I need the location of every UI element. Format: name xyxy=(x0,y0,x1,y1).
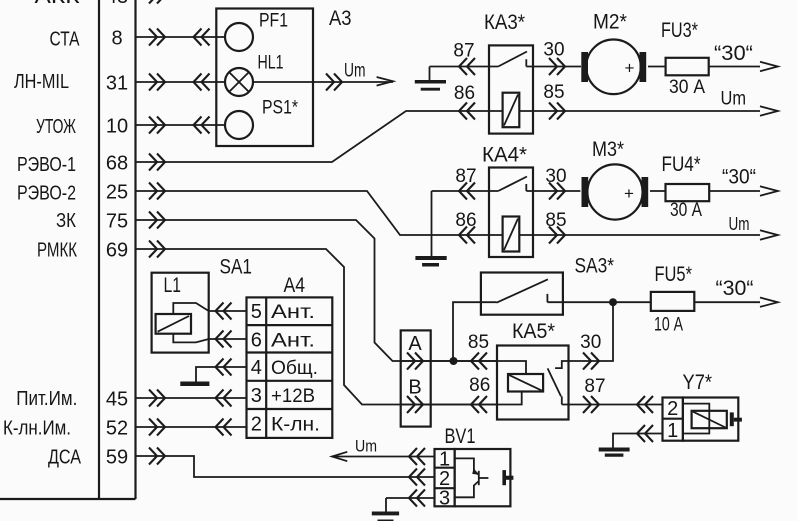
svg-text:“30“: “30“ xyxy=(714,42,753,65)
svg-text:L1: L1 xyxy=(164,274,182,297)
svg-text:КА5*: КА5* xyxy=(512,320,555,343)
svg-text:РЭВО-2: РЭВО-2 xyxy=(17,183,76,205)
svg-text:87: 87 xyxy=(455,166,476,187)
svg-text:30: 30 xyxy=(545,166,566,187)
svg-text:BV1: BV1 xyxy=(445,425,476,448)
svg-text:Um: Um xyxy=(729,214,750,234)
svg-text:А: А xyxy=(408,333,422,355)
svg-text:М3*: М3* xyxy=(592,138,624,161)
svg-text:+12В: +12В xyxy=(271,386,315,407)
svg-text:4: 4 xyxy=(251,357,262,379)
svg-text:30: 30 xyxy=(543,40,564,61)
svg-text:Y7*: Y7* xyxy=(683,371,713,394)
svg-text:“30“: “30“ xyxy=(716,277,754,300)
svg-text:52: 52 xyxy=(106,417,128,439)
svg-text:59: 59 xyxy=(106,446,128,468)
svg-text:Ант.: Ант. xyxy=(271,302,315,323)
svg-text:2: 2 xyxy=(667,398,678,420)
svg-text:КА3*: КА3* xyxy=(484,11,525,34)
svg-text:69: 69 xyxy=(106,239,128,261)
svg-text:ЗК: ЗК xyxy=(56,210,76,232)
svg-text:86: 86 xyxy=(469,375,490,396)
svg-text:КА4*: КА4* xyxy=(482,144,527,167)
svg-text:РЭВО-1: РЭВО-1 xyxy=(17,154,76,176)
svg-text:Um: Um xyxy=(344,61,366,82)
svg-text:2: 2 xyxy=(251,414,262,436)
svg-text:Um: Um xyxy=(721,89,747,110)
svg-text:FU5*: FU5* xyxy=(655,263,693,286)
svg-text:+: + xyxy=(625,58,635,77)
svg-text:85: 85 xyxy=(468,332,489,353)
svg-text:А3: А3 xyxy=(329,7,352,30)
svg-text:РМКК: РМКК xyxy=(37,240,77,262)
svg-text:Um: Um xyxy=(355,437,377,456)
svg-text:10 А: 10 А xyxy=(654,315,683,336)
svg-text:В: В xyxy=(408,377,421,399)
svg-text:45: 45 xyxy=(106,388,128,410)
svg-text:31: 31 xyxy=(106,72,128,94)
svg-text:FU3*: FU3* xyxy=(661,19,698,42)
svg-text:PF1: PF1 xyxy=(259,11,288,32)
svg-text:К-лн.Им.: К-лн.Им. xyxy=(3,418,71,440)
svg-text:6: 6 xyxy=(251,329,262,351)
svg-text:SA1: SA1 xyxy=(220,256,253,279)
svg-text:68: 68 xyxy=(106,153,128,175)
svg-text:ДСА: ДСА xyxy=(48,446,82,468)
svg-text:86: 86 xyxy=(454,83,475,104)
svg-text:Пит.Им.: Пит.Им. xyxy=(16,388,77,410)
svg-text:PS1*: PS1* xyxy=(262,98,298,119)
svg-text:3: 3 xyxy=(439,487,450,509)
svg-text:87: 87 xyxy=(453,41,474,62)
svg-text:FU4*: FU4* xyxy=(662,153,701,176)
svg-text:8: 8 xyxy=(111,27,122,49)
svg-text:“30“: “30“ xyxy=(722,166,756,189)
svg-text:1: 1 xyxy=(667,420,678,442)
svg-text:SA3*: SA3* xyxy=(575,255,615,278)
svg-text:75: 75 xyxy=(106,210,128,232)
svg-text:СТА: СТА xyxy=(50,28,81,50)
svg-text:25: 25 xyxy=(106,181,128,203)
svg-text:Ант.: Ант. xyxy=(271,330,315,351)
svg-text:5: 5 xyxy=(251,301,262,323)
svg-text:ЛН-MIL: ЛН-MIL xyxy=(14,71,69,93)
svg-text:30: 30 xyxy=(580,332,601,353)
svg-text:М2*: М2* xyxy=(593,11,627,34)
svg-text:А4: А4 xyxy=(284,274,306,297)
svg-text:К-лн.: К-лн. xyxy=(271,415,320,436)
svg-text:30 А: 30 А xyxy=(670,200,702,221)
svg-text:87: 87 xyxy=(584,376,605,397)
svg-text:43: 43 xyxy=(106,0,128,8)
svg-text:85: 85 xyxy=(543,82,564,103)
svg-text:АКК: АКК xyxy=(35,0,80,8)
svg-text:+: + xyxy=(624,184,634,203)
svg-text:3: 3 xyxy=(251,385,262,407)
svg-text:86: 86 xyxy=(455,210,476,231)
svg-text:30 А: 30 А xyxy=(669,77,705,98)
svg-text:10: 10 xyxy=(106,115,128,137)
svg-text:HL1: HL1 xyxy=(258,52,284,73)
svg-text:85: 85 xyxy=(545,210,566,231)
svg-text:Общ.: Общ. xyxy=(271,358,318,379)
svg-text:УТОЖ: УТОЖ xyxy=(36,116,76,138)
